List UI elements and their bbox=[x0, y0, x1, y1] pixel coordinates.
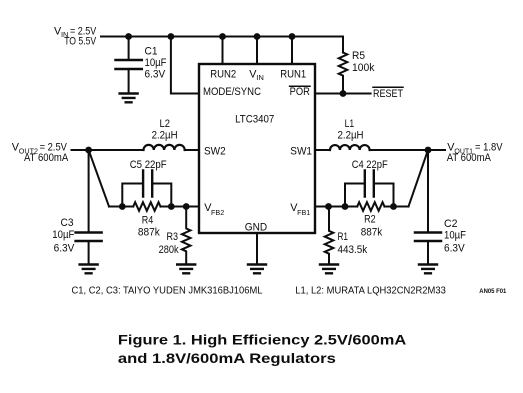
svg-text:SW1: SW1 bbox=[290, 145, 312, 157]
resistor R4 bbox=[133, 202, 160, 211]
inductor L2 bbox=[144, 145, 185, 150]
svg-text:C3: C3 bbox=[61, 217, 74, 229]
wire VFB2 row left bbox=[109, 206, 133, 208]
svg-text:LTC3407: LTC3407 bbox=[235, 114, 274, 126]
wire C1 top lead bbox=[128, 37, 130, 59]
svg-text:POR: POR bbox=[290, 86, 310, 98]
IC U1 LTC3407 bbox=[199, 64, 315, 233]
svg-text:AN05 F01: AN05 F01 bbox=[479, 288, 506, 295]
resistor R5 bbox=[339, 53, 348, 94]
wire RUN1 pin riser bbox=[291, 37, 293, 65]
ground R3 bbox=[177, 265, 195, 274]
svg-text:280k: 280k bbox=[159, 244, 180, 256]
capacitor C5 bbox=[122, 171, 171, 207]
junction dot R2/C4 right bbox=[390, 203, 397, 210]
ground C3 bbox=[80, 265, 98, 274]
junction dot rail/RUN2 bbox=[219, 33, 226, 40]
inductor L1 bbox=[330, 145, 370, 150]
wire diagonal VOUT1 to feedback bbox=[409, 150, 429, 207]
capacitor C3 lead bbox=[88, 150, 90, 231]
label L1 value bbox=[338, 118, 364, 142]
wire C2 bottom lead bbox=[427, 242, 429, 265]
svg-text:L1, L2: MURATA LQH32CN2R2M33: L1, L2: MURATA LQH32CN2R2M33 bbox=[295, 286, 446, 297]
svg-text:R4: R4 bbox=[142, 214, 154, 226]
svg-text:887k: 887k bbox=[138, 227, 161, 239]
junction dot rail/VIN pin bbox=[254, 33, 261, 40]
capacitor C3 bbox=[76, 233, 102, 242]
node VIN input label bbox=[54, 26, 97, 48]
svg-text:FB2: FB2 bbox=[211, 208, 224, 217]
svg-text:C5 22pF: C5 22pF bbox=[130, 159, 167, 171]
label R4 value bbox=[138, 214, 161, 238]
svg-text:RUN1: RUN1 bbox=[280, 68, 306, 80]
svg-text:R3: R3 bbox=[167, 231, 179, 243]
junction dot rail/C1 bbox=[125, 33, 132, 40]
svg-text:TO 5.5V: TO 5.5V bbox=[64, 36, 97, 48]
svg-text:Figure 1. High Efficiency 2.5V: Figure 1. High Efficiency 2.5V/600mA bbox=[118, 332, 406, 348]
label L2 value bbox=[152, 118, 178, 142]
svg-text:MODE/SYNC: MODE/SYNC bbox=[203, 86, 261, 98]
wire VFB1 row left bbox=[315, 206, 357, 208]
junction dot R4/C5 left bbox=[119, 203, 126, 210]
wire L2 to SW2 bbox=[185, 149, 199, 151]
wire L1 to VOUT1 bbox=[370, 149, 445, 151]
wire SW1 to L1 bbox=[315, 149, 330, 151]
wire GND pin lead bbox=[256, 233, 258, 265]
ground GND pin bbox=[248, 265, 266, 274]
junction dot rail/RUN1 bbox=[289, 33, 296, 40]
node RESET label bbox=[373, 87, 403, 100]
svg-text:FB1: FB1 bbox=[297, 208, 310, 217]
svg-text:GND: GND bbox=[245, 221, 268, 233]
wire RUN2 pin riser bbox=[222, 37, 224, 65]
label R3 value bbox=[159, 231, 180, 256]
svg-text:AT 600mA: AT 600mA bbox=[447, 152, 492, 164]
svg-text:R2: R2 bbox=[364, 213, 376, 225]
svg-text:SW2: SW2 bbox=[204, 145, 226, 157]
node VOUT2 output label bbox=[12, 142, 69, 165]
wire VIN pin riser bbox=[256, 37, 258, 65]
resistor R1 bbox=[325, 207, 334, 265]
capacitor C2 bbox=[415, 233, 441, 242]
svg-text:L1: L1 bbox=[345, 118, 355, 130]
junction dot R1 tap bbox=[325, 203, 332, 210]
label R2 value bbox=[361, 213, 383, 238]
wire diagonal VOUT2 to feedback bbox=[89, 150, 109, 207]
label C1 value bbox=[145, 45, 167, 80]
pin label VFB2 bbox=[204, 202, 224, 217]
svg-text:C2: C2 bbox=[444, 218, 458, 230]
pin label VFB1 bbox=[290, 202, 310, 217]
svg-text:C4 22pF: C4 22pF bbox=[352, 159, 388, 171]
label figure caption bbox=[118, 332, 406, 366]
svg-text:RUN2: RUN2 bbox=[210, 68, 236, 80]
pin label VIN bbox=[249, 68, 264, 82]
svg-text:100k: 100k bbox=[352, 62, 375, 74]
ground C1 bbox=[120, 94, 138, 103]
svg-text:887k: 887k bbox=[361, 226, 383, 238]
wire C1 bottom lead bbox=[128, 70, 130, 93]
wire VOUT2 to L2 bbox=[72, 149, 144, 151]
svg-text:10µF: 10µF bbox=[52, 229, 74, 241]
resistor R2 bbox=[357, 202, 384, 211]
resistor R3 bbox=[182, 207, 191, 265]
wire POR to RESET bbox=[315, 93, 371, 95]
junction dot VOUT2 bbox=[85, 147, 92, 154]
svg-text:and 1.8V/600mA Regulators: and 1.8V/600mA Regulators bbox=[118, 350, 336, 366]
capacitor C2 lead bbox=[427, 150, 429, 231]
label C3 value bbox=[52, 217, 75, 254]
capacitor C4 bbox=[345, 171, 394, 207]
svg-text:IN: IN bbox=[256, 73, 264, 82]
wire VIN top rail bbox=[101, 37, 343, 53]
junction dot R4/C5 right bbox=[168, 203, 175, 210]
svg-text:AT 600mA: AT 600mA bbox=[24, 152, 69, 164]
svg-text:2.2µH: 2.2µH bbox=[152, 130, 178, 142]
pin label POR bbox=[290, 86, 310, 98]
wire MODE/SYNC riser bbox=[171, 37, 199, 94]
svg-text:RESET: RESET bbox=[373, 88, 403, 100]
svg-text:R1: R1 bbox=[338, 231, 349, 243]
svg-text:443.5k: 443.5k bbox=[338, 244, 368, 256]
svg-text:R5: R5 bbox=[352, 50, 365, 62]
svg-text:C1: C1 bbox=[145, 45, 158, 57]
node VOUT1 output label bbox=[447, 142, 503, 165]
svg-text:6.3V: 6.3V bbox=[145, 69, 166, 81]
svg-text:2.2µH: 2.2µH bbox=[338, 130, 364, 142]
svg-text:C1, C2, C3: TAIYO YUDEN JMK316: C1, C2, C3: TAIYO YUDEN JMK316BJ106ML bbox=[72, 286, 264, 297]
ground C2 bbox=[419, 265, 437, 274]
junction dot R3 tap bbox=[183, 203, 190, 210]
capacitor C1 bbox=[116, 60, 142, 69]
wire VFB2 row right bbox=[161, 206, 200, 208]
svg-text:6.3V: 6.3V bbox=[54, 242, 75, 254]
label C2 value bbox=[444, 218, 466, 254]
junction dot rail/MODE-SYNC bbox=[168, 33, 175, 40]
junction dot R5/POR bbox=[340, 90, 347, 97]
junction dot VOUT1 bbox=[425, 147, 432, 154]
wire C3 bottom lead bbox=[88, 242, 90, 265]
label R5 value bbox=[352, 50, 375, 74]
ground R1 bbox=[320, 265, 338, 274]
svg-text:10µF: 10µF bbox=[444, 229, 466, 241]
svg-text:6.3V: 6.3V bbox=[444, 242, 465, 254]
svg-text:10µF: 10µF bbox=[145, 57, 167, 69]
junction dot R2/C4 left bbox=[342, 203, 349, 210]
svg-text:L2: L2 bbox=[160, 118, 171, 130]
wire VFB1 row right bbox=[385, 206, 409, 208]
label R1 value bbox=[338, 231, 368, 256]
